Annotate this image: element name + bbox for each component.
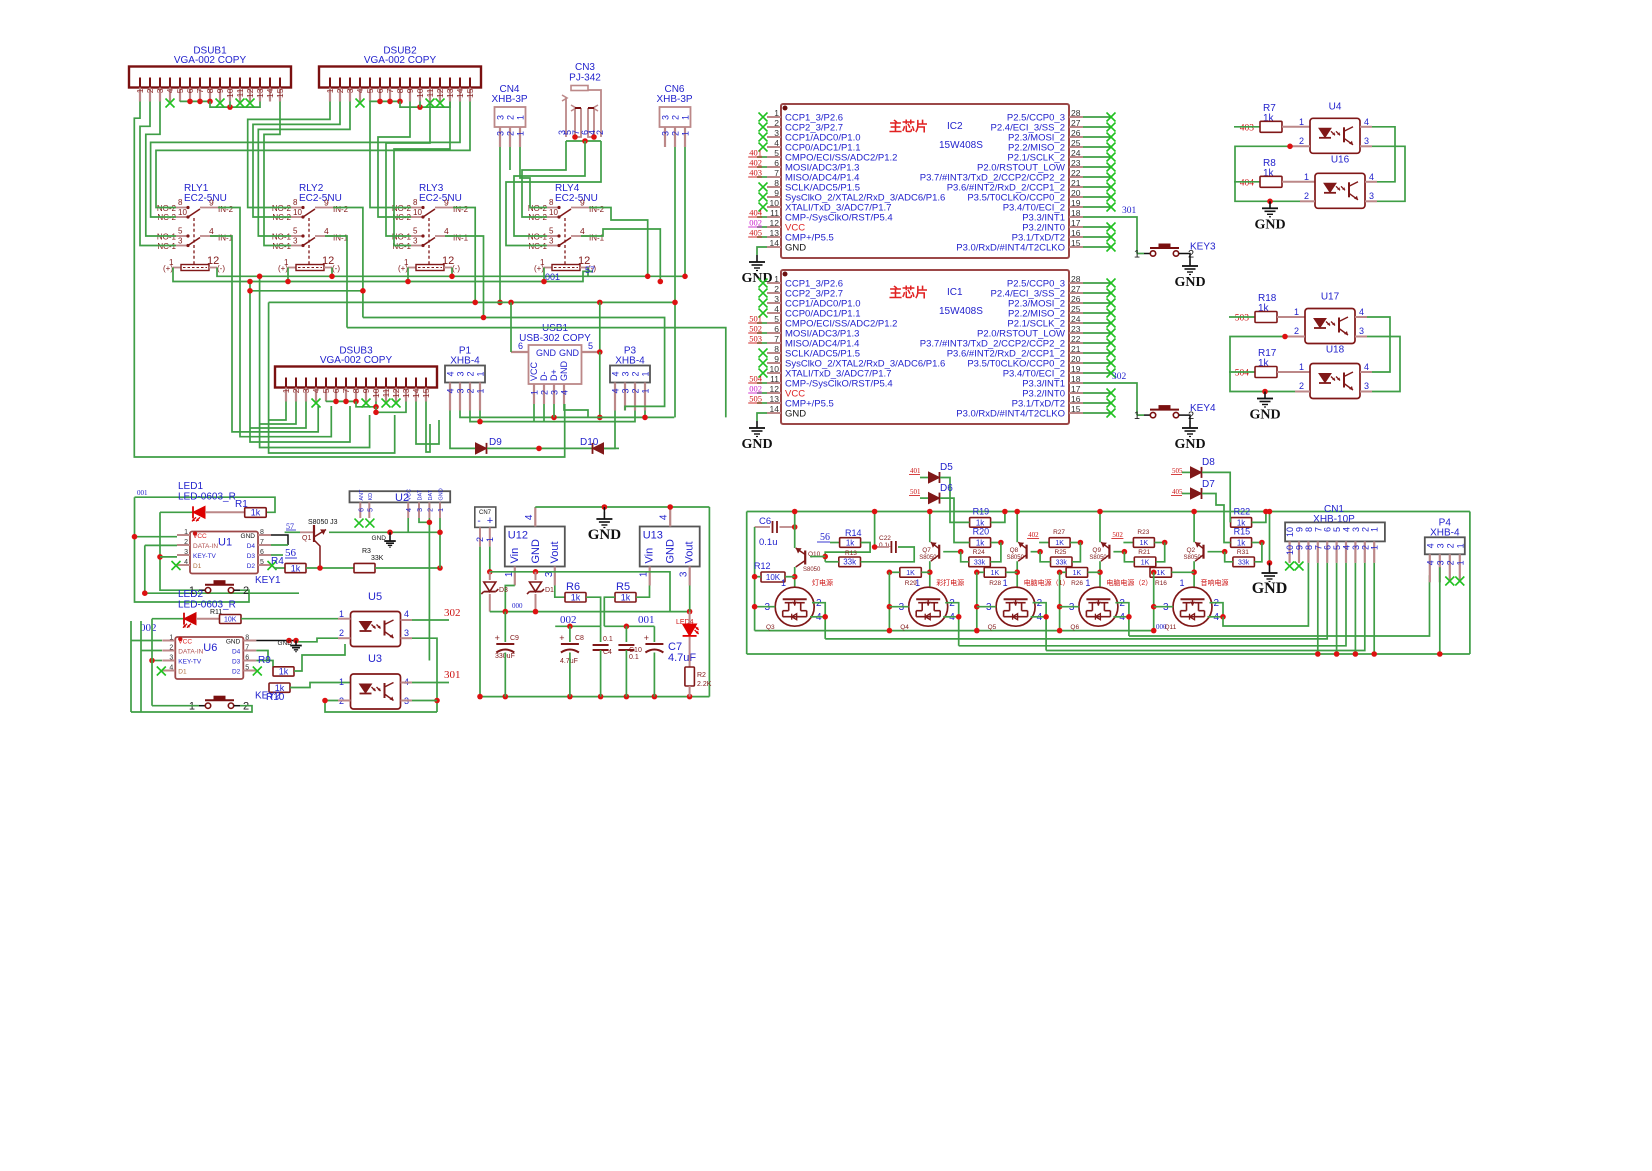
wire bus DSUB2.14 to RLY1 NC-2 [151, 102, 460, 218]
svg-text:EC2-5NU: EC2-5NU [555, 193, 598, 204]
node Q1 emitter [306, 567, 354, 569]
wire Q10 vertical [794, 512, 796, 549]
wire IC2 GND [757, 247, 767, 255]
wire bottom rail [480, 696, 709, 698]
svg-text:R15: R15 [1234, 527, 1251, 537]
wire U1 VCC [135, 536, 178, 538]
svg-text:4: 4 [774, 304, 779, 314]
pin IC1.17 P3.2/INT0 [1069, 392, 1083, 394]
capacitor C4 0.1 [593, 644, 609, 646]
svg-text:GND: GND [1174, 275, 1205, 290]
ground KEY3 [1185, 254, 1190, 260]
wire CN7.1 down [489, 547, 491, 572]
svg-text:0.1u: 0.1u [759, 537, 778, 548]
svg-text:VCC: VCC [193, 533, 207, 540]
pin U6.7 [243, 650, 256, 652]
wire U6 VCC [131, 640, 162, 642]
wire U3 upper pin3 [412, 638, 437, 712]
svg-text:D5: D5 [940, 462, 953, 473]
svg-text:1: 1 [1370, 545, 1380, 550]
wire mesh: DSUB2 local nets [370, 100, 400, 102]
svg-text:U13: U13 [643, 530, 663, 542]
svg-text:15: 15 [465, 88, 475, 98]
pin IC1.13 CMP+/P5.5 [767, 402, 781, 404]
svg-text:1: 1 [681, 131, 691, 136]
svg-text:2: 2 [1299, 136, 1304, 146]
svg-text:4.7uF: 4.7uF [668, 652, 696, 664]
svg-text:(-): (-) [452, 264, 460, 273]
svg-text:1: 1 [530, 390, 540, 395]
wire DSUB3 right risers [416, 402, 439, 445]
svg-text:15: 15 [1071, 238, 1081, 248]
pin IC1.8 SCLK/ADC5/P1.5 [767, 352, 781, 354]
svg-text:401: 401 [910, 467, 921, 475]
svg-text:405: 405 [1172, 488, 1183, 496]
svg-text:56: 56 [285, 547, 297, 559]
svg-text:402: 402 [1028, 531, 1039, 539]
svg-text:D1: D1 [178, 669, 187, 676]
svg-text:5: 5 [245, 665, 249, 672]
resistor R2 2.2K [689, 637, 691, 667]
svg-text:2: 2 [427, 508, 434, 512]
svg-text:4: 4 [611, 389, 621, 394]
pin IC1.16 P3.1/TxD/T2 [1069, 402, 1083, 404]
svg-text:502: 502 [749, 324, 762, 334]
svg-text:5: 5 [774, 314, 779, 324]
svg-text:2: 2 [774, 118, 779, 128]
svg-text:IN-2: IN-2 [333, 205, 349, 214]
pin IC2.4 CCP0/ADC1/P1.1 [767, 146, 781, 148]
svg-text:1: 1 [540, 258, 545, 267]
svg-text:2: 2 [671, 131, 681, 136]
svg-text:EC2-5NU: EC2-5NU [184, 193, 227, 204]
pin IC2.8 SCLK/ADC5/P1.5 [767, 186, 781, 188]
pin U1.8 [258, 534, 271, 536]
regulator U13 [640, 527, 700, 567]
svg-text:4: 4 [355, 88, 365, 93]
svg-text:U4: U4 [1329, 101, 1342, 112]
resistor R16 1K [1150, 568, 1172, 578]
svg-text:2: 2 [169, 645, 173, 652]
pin IC2.23 P2.0/RSTOUT_LOW [1069, 166, 1083, 168]
pin U1.2 [177, 544, 190, 546]
pin U6.5 [243, 670, 256, 672]
ground U6 [295, 641, 297, 646]
wire U6 pin8 GND [256, 640, 294, 642]
svg-text:R4: R4 [271, 556, 284, 567]
svg-text:S8050 J3: S8050 J3 [308, 519, 338, 526]
svg-text:3: 3 [661, 115, 671, 120]
svg-text:1: 1 [516, 115, 526, 120]
svg-text:D4: D4 [247, 543, 256, 550]
wire cluster1 left vertical [754, 527, 756, 631]
pin IC2.17 P3.2/INT0 [1069, 226, 1083, 228]
svg-text:1: 1 [641, 389, 651, 394]
svg-text:404: 404 [749, 208, 763, 218]
svg-text:R16: R16 [1155, 580, 1167, 587]
svg-text:2: 2 [475, 537, 485, 542]
wire rail Q5 to CN1 pin2 [1046, 563, 1365, 651]
svg-text:U3: U3 [368, 653, 382, 665]
svg-text:IN-2: IN-2 [453, 205, 469, 214]
svg-text:4: 4 [165, 88, 175, 93]
svg-text:10: 10 [770, 364, 780, 374]
svg-text:12: 12 [245, 88, 255, 98]
svg-text:10K: 10K [224, 617, 237, 624]
svg-text:1k: 1k [846, 538, 855, 547]
svg-text:56: 56 [820, 532, 830, 543]
svg-text:1k: 1k [621, 592, 631, 602]
wire U1 pin6 56 [271, 554, 283, 556]
pin IC1.1 CCP1_3/P2.6 [767, 282, 781, 284]
pin U1.1 [177, 534, 190, 536]
svg-text:4: 4 [580, 226, 585, 236]
svg-text:4: 4 [404, 609, 409, 619]
svg-text:4: 4 [659, 514, 670, 520]
svg-text:7: 7 [245, 645, 249, 652]
svg-text:Q8: Q8 [1010, 547, 1019, 554]
pin IC2.11 CMP-/SysClkO/RST/P5.4 [767, 216, 781, 218]
svg-text:10: 10 [371, 388, 381, 398]
wire opto pins 3 tie [1372, 146, 1405, 201]
svg-text:Q9: Q9 [1092, 547, 1101, 554]
wire P1.4 to D9 [450, 411, 452, 449]
svg-text:5: 5 [293, 227, 298, 236]
svg-text:PJ-342: PJ-342 [569, 73, 601, 84]
svg-text:+: + [644, 633, 649, 643]
svg-text:GND: GND [588, 527, 622, 543]
svg-text:3: 3 [679, 571, 690, 577]
wire power top GND rail [535, 506, 709, 508]
wire source vertical Q5 [976, 572, 978, 630]
svg-text:7: 7 [385, 88, 395, 93]
capacitor C8 4.7uF [561, 643, 579, 645]
svg-text:LED-0603_R: LED-0603_R [178, 492, 236, 503]
svg-text:7: 7 [774, 168, 779, 178]
pin IC1.27 P2.4/ECI_3/SS_2 [1069, 292, 1083, 294]
wire relay IN drops RLY2 [333, 208, 363, 318]
svg-text:1: 1 [404, 258, 409, 267]
svg-text:3: 3 [404, 628, 409, 638]
wire relay coil(+) drop [543, 268, 545, 282]
svg-text:12: 12 [391, 388, 401, 398]
svg-text:C22: C22 [879, 535, 891, 542]
svg-text:2: 2 [1304, 191, 1309, 201]
svg-text:20: 20 [1071, 354, 1081, 364]
svg-text:C10: C10 [629, 647, 642, 654]
pin IC2.12 VCC [767, 226, 781, 228]
connector CN7 [475, 507, 496, 527]
svg-text:1: 1 [1003, 578, 1008, 588]
svg-text:R9: R9 [258, 655, 271, 666]
wire relay coil(-) drop [451, 268, 453, 277]
svg-text:D2: D2 [232, 669, 241, 676]
svg-text:6: 6 [518, 341, 523, 351]
svg-text:1: 1 [781, 578, 786, 588]
svg-text:25: 25 [1071, 304, 1081, 314]
svg-text:10: 10 [770, 198, 780, 208]
svg-text:4: 4 [560, 390, 570, 395]
pin IC1.11 CMP-/SysClkO/RST/P5.4 [767, 382, 781, 384]
svg-text:16: 16 [1071, 394, 1081, 404]
svg-text:5: 5 [774, 148, 779, 158]
pin IC1.18 P3.3/INT1 [1069, 382, 1083, 384]
button KEY3 [1137, 253, 1144, 255]
pin U1.5 [258, 564, 271, 566]
svg-text:1: 1 [1299, 362, 1304, 372]
wire Q9 vertical [1099, 512, 1101, 543]
svg-text:3: 3 [345, 88, 355, 93]
pin U6.3 [162, 660, 175, 662]
svg-text:1: 1 [1304, 172, 1309, 182]
pin U1.3 [177, 554, 190, 556]
svg-text:3: 3 [184, 549, 188, 556]
svg-text:7: 7 [195, 88, 205, 93]
wire D5 to R19 [940, 478, 970, 523]
pin U6.4 [162, 670, 175, 672]
pin IC1.21 P3.6/#INT2/RxD_2/CCP1_2 [1069, 352, 1083, 354]
svg-text:1K: 1K [1141, 559, 1150, 566]
wire R13 right to C22 [861, 547, 915, 562]
svg-text:KEY-TV: KEY-TV [193, 553, 217, 560]
svg-text:1K: 1K [1140, 540, 1149, 547]
wire rail Q6 to P4 [1129, 575, 1430, 636]
svg-text:2: 2 [243, 701, 249, 713]
svg-text:KEY1: KEY1 [255, 575, 281, 586]
svg-text:Q11: Q11 [1165, 624, 1177, 631]
pin U6.1 [162, 640, 175, 642]
svg-text:002: 002 [749, 218, 762, 228]
svg-text:U16: U16 [1331, 154, 1350, 165]
wire opto pins 3 tie [1367, 337, 1400, 392]
svg-text:6: 6 [260, 549, 264, 556]
pin IC1.5 CMPO/ECI/SS/ADC2/P1.2 [767, 322, 781, 324]
wire D8 to R22 [1202, 472, 1230, 522]
svg-text:404: 404 [1240, 178, 1255, 188]
svg-text:EC2-5NU: EC2-5NU [299, 193, 342, 204]
svg-text:15: 15 [1071, 404, 1081, 414]
wire opto pins 2 to GND [1235, 146, 1300, 201]
svg-text:11: 11 [381, 388, 391, 397]
svg-text:灯电源: 灯电源 [812, 578, 833, 587]
svg-text:Q1: Q1 [302, 535, 311, 542]
pin U1.7 [258, 544, 271, 546]
svg-text:13: 13 [770, 228, 780, 238]
wire Q11 drain [1210, 603, 1224, 617]
svg-text:3: 3 [1369, 191, 1374, 201]
wire GND bottom bus [747, 653, 1470, 655]
svg-text:D10: D10 [580, 437, 599, 448]
svg-text:1: 1 [516, 131, 526, 136]
pin IC2.27 P2.4/ECI_3/SS_2 [1069, 126, 1083, 128]
svg-text:VGA-002 COPY: VGA-002 COPY [364, 55, 437, 66]
svg-text:1: 1 [476, 389, 486, 394]
svg-text:3: 3 [413, 237, 418, 246]
svg-text:5: 5 [588, 341, 593, 351]
svg-text:10: 10 [413, 208, 422, 217]
svg-text:D1: D1 [193, 563, 202, 570]
svg-text:5: 5 [178, 227, 183, 236]
svg-text:1: 1 [1455, 543, 1465, 548]
svg-text:2: 2 [671, 115, 681, 120]
svg-text:R27: R27 [1053, 529, 1065, 536]
svg-text:U12: U12 [508, 530, 528, 542]
svg-text:14: 14 [411, 388, 421, 398]
svg-text:2: 2 [291, 388, 301, 393]
svg-text:8: 8 [293, 198, 298, 207]
wire IC1 P3.3/INT1 out [1083, 383, 1137, 415]
svg-text:D+: D+ [549, 369, 559, 381]
svg-text:GND: GND [530, 539, 542, 564]
svg-text:2.2K: 2.2K [697, 681, 712, 688]
svg-text:14: 14 [455, 88, 465, 98]
wire U2 GND down [439, 518, 441, 568]
svg-text:1: 1 [1134, 249, 1140, 261]
svg-text:Q7: Q7 [922, 547, 931, 554]
svg-text:1: 1 [1134, 410, 1140, 422]
svg-text:GND: GND [241, 533, 256, 540]
svg-text:3: 3 [1359, 326, 1364, 336]
pin IC1.14 GND [767, 412, 781, 414]
wire U13 Vout to LED4 [689, 586, 691, 612]
wire U6 pin7 [256, 651, 268, 661]
svg-text:R14: R14 [845, 528, 862, 538]
svg-text:22: 22 [1071, 168, 1081, 178]
svg-text:D9: D9 [489, 437, 502, 448]
svg-text:6: 6 [774, 324, 779, 334]
button KEY2 [199, 705, 205, 707]
svg-text:1K: 1K [906, 570, 915, 577]
svg-text:2: 2 [1294, 326, 1299, 336]
wire line-a [250, 290, 363, 292]
svg-text:3: 3 [417, 508, 424, 512]
wire D6 to R20 [940, 498, 970, 542]
pin IC2.1 CCP1_3/P2.6 [767, 116, 781, 118]
resistor R28 1K [984, 568, 1006, 578]
wire outer right vertical [1469, 512, 1471, 655]
wire CN3/CN6 columns [674, 147, 676, 417]
capacitor C7 4.7uF [645, 643, 663, 645]
svg-text:7: 7 [260, 539, 264, 546]
svg-text:GND: GND [559, 348, 580, 358]
svg-text:D2: D2 [247, 563, 256, 570]
diode D3 [489, 572, 491, 580]
svg-text:2: 2 [774, 284, 779, 294]
svg-text:R13: R13 [845, 550, 857, 557]
capacitor C10 0.1 [618, 644, 634, 646]
svg-text:11: 11 [770, 208, 779, 218]
svg-text:2: 2 [540, 390, 550, 395]
svg-text:6: 6 [185, 88, 195, 93]
wire bus DSUB1.2 to RLY1 NC-1 [140, 102, 176, 246]
wire IC2 P3.3/INT1 out [1083, 217, 1137, 254]
svg-text:D4: D4 [232, 649, 241, 656]
svg-text:19: 19 [1071, 364, 1081, 374]
ground IC2 [756, 255, 758, 262]
svg-text:主芯片: 主芯片 [889, 119, 928, 134]
svg-text:GND: GND [1254, 217, 1285, 232]
svg-text:9: 9 [774, 188, 779, 198]
svg-text:5: 5 [321, 388, 331, 393]
svg-text:VCC: VCC [407, 489, 413, 501]
optocoupler U3 (upper) [351, 612, 401, 647]
pin IC1.7 MISO/ADC4/P1.4 [767, 342, 781, 344]
pin IC2.19 P3.4/T0/ECI_2 [1069, 206, 1083, 208]
svg-text:22: 22 [1071, 334, 1081, 344]
svg-text:1k: 1k [571, 592, 581, 602]
wire P1/USB/P3 rails [460, 411, 674, 418]
svg-text:4: 4 [1364, 117, 1369, 127]
svg-text:彩打电源: 彩打电源 [936, 578, 964, 587]
svg-text:8: 8 [351, 388, 361, 393]
svg-text:5: 5 [413, 227, 418, 236]
pin IC2.2 CCP2_3/P2.7 [767, 126, 781, 128]
svg-text:9: 9 [444, 198, 449, 208]
pin IC1.12 VCC [767, 392, 781, 394]
wire Q6 drain [1115, 603, 1129, 636]
ground power [603, 507, 605, 512]
wire RLY4 coil(-) drop [587, 268, 589, 277]
pin U1.4 [177, 564, 190, 566]
svg-text:2: 2 [506, 131, 516, 136]
svg-text:12: 12 [770, 218, 780, 228]
ground opto [1269, 201, 1271, 208]
svg-text:Q2: Q2 [1187, 547, 1196, 554]
svg-text:3: 3 [293, 237, 298, 246]
wire 001 top rail [135, 497, 276, 512]
wire opto pins 4 tie [1372, 127, 1395, 182]
svg-text:DATA-IN: DATA-IN [193, 543, 218, 550]
svg-text:1: 1 [1085, 578, 1090, 588]
svg-text:8: 8 [395, 88, 405, 93]
svg-text:NC-1: NC-1 [157, 242, 176, 251]
svg-text:Q3: Q3 [766, 624, 775, 631]
net 302 [412, 619, 449, 621]
svg-text:502: 502 [1112, 531, 1123, 539]
pin IC2.26 P2.3/MOSI_2 [1069, 136, 1083, 138]
optocoupler U3 (lower) [351, 674, 401, 709]
svg-text:R3: R3 [362, 548, 371, 555]
pin IC1.6 MOSI/ADC3/P1.3 [767, 332, 781, 334]
button KEY1 [199, 589, 205, 591]
svg-text:33k: 33k [1238, 559, 1250, 566]
svg-text:4: 4 [406, 508, 413, 512]
wire outer left vertical [746, 512, 748, 655]
pin IC1.3 CCP1/ADC0/P1.0 [767, 302, 781, 304]
svg-text:+: + [487, 515, 493, 527]
svg-text:57: 57 [585, 265, 595, 275]
op-amp IC1 15W408S main chip [781, 270, 1069, 424]
svg-text:USB-302 COPY: USB-302 COPY [519, 333, 591, 344]
wire 572 rail [490, 572, 670, 612]
wire DSUB3 pins 1,2,3 hooks [269, 402, 286, 421]
wire D10 right up [604, 411, 615, 449]
svg-text:2: 2 [1445, 560, 1455, 565]
wire rail Q3 to CN1 pin6 [825, 563, 1327, 639]
net 301 [412, 682, 449, 684]
svg-text:VCC: VCC [178, 639, 192, 646]
svg-text:27: 27 [1071, 284, 1081, 294]
wire CN7.2 down [479, 547, 481, 697]
wire bus DSUB2.15 to RLY1 NO-2 [156, 102, 470, 208]
svg-text:20: 20 [1071, 188, 1081, 198]
wire Q3 pin3 [755, 606, 776, 608]
svg-text:21: 21 [1071, 344, 1081, 354]
ground IC1 [756, 421, 758, 428]
svg-text:DAT: DAT [418, 489, 424, 500]
svg-text:6: 6 [245, 655, 249, 662]
svg-text:24: 24 [1071, 314, 1081, 324]
